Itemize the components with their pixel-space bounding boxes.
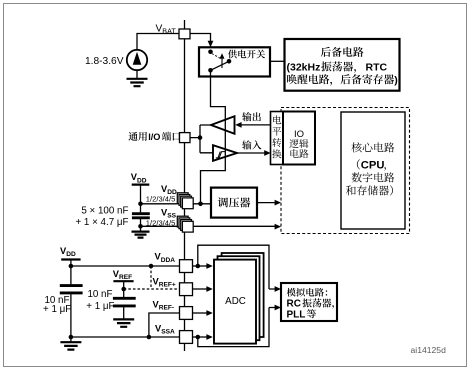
svg-text:1/2/3/4/5: 1/2/3/4/5 [146,195,176,204]
svg-text:PLL: PLL [287,309,306,320]
wire VSSA to analog blocks [193,305,282,347]
svg-text:+ 1 μF: + 1 μF [86,301,114,312]
label 后备电路 [321,47,364,57]
supply VDD (analog section) [61,260,80,267]
pin VDDA [180,260,193,273]
wire switch to backup circuit [270,60,284,62]
capacitor C1 5x100nF+1x4.7uF [132,204,150,227]
pin VREF- [180,307,193,320]
svg-text:VREF: VREF [113,269,132,281]
supply VDD (mid) [132,185,150,204]
ground [132,226,150,237]
regulator U5 [211,188,257,218]
label 通用I/O端口 [128,132,180,142]
wire VSS node to pin [141,225,178,227]
node VREF- junction [147,335,152,340]
svg-text:(32kHz: (32kHz [287,62,321,74]
node VDD-regulator junction [198,202,203,207]
capacitor C2 10nF+1uF [60,266,83,337]
node pad junction [198,135,203,140]
wire VDD node to pin [141,203,178,205]
supply wire switch to VDD node [201,70,226,204]
ground [60,337,81,350]
wire VDDA to analog blocks [193,245,282,292]
svg-text:I/O: I/O [148,132,160,142]
svg-text:ai14125d: ai14125d [411,345,447,355]
wire pad net [190,125,213,153]
wire VSS to core domain [193,224,281,230]
svg-text:VDDA: VDDA [155,252,176,264]
core domain dashed boundary [281,108,410,234]
backup circuit block U2 [285,39,400,91]
svg-text:VDD: VDD [131,172,147,184]
wire VBAT to switch [190,34,213,48]
pin VSSA [180,331,193,344]
node VDD [138,202,143,207]
battery source B1 1.8-3.6V [127,50,147,70]
supply VREF [113,281,133,289]
wire source to VBAT [137,34,179,50]
label 输出 [242,112,261,121]
svg-text:): ) [394,74,398,86]
label (32kHz oscillator, RTC [287,61,388,73]
IO logic block [283,112,315,165]
label IO 逻辑电路 [289,129,308,158]
pin VDD 1..5 (stack) [177,193,193,209]
svg-text:CPU: CPU [361,160,385,172]
label 调压器 [218,197,250,207]
ground [127,70,148,86]
label wakeup circuit, backup registers [287,74,398,86]
svg-text:VBAT: VBAT [156,24,177,36]
wire VSSA net [71,336,180,338]
value label C2 [43,295,71,315]
analog circuits block [281,283,337,321]
pin VSS 1..5 (stack) [177,216,193,232]
label 输入 [242,140,261,149]
label 供电开关 [228,50,265,59]
node VSS [138,224,143,229]
pin VREF+ [180,283,193,296]
svg-text:VSSA: VSSA [155,323,175,335]
svg-text:IO: IO [294,129,304,140]
node VSSA net [69,335,74,340]
svg-text:5 × 100 nF: 5 × 100 nF [81,206,128,217]
output buffer U3 [211,116,235,134]
wire VREF+ dashed [124,266,180,289]
wire VDDA net [71,265,180,267]
wire VDD pin to regulator [193,203,211,205]
input schmitt buffer U4 [213,145,237,161]
capacitor C3 10nF+1uF [113,289,136,319]
chip edge rail (pins line) [184,20,186,351]
wire regulator output [257,200,281,206]
core circuit block [341,112,405,229]
schmitt symbol [216,152,225,158]
svg-text:VDD: VDD [60,246,76,258]
svg-text:1/2/3/4/5: 1/2/3/4/5 [146,219,176,228]
node VDDA net [69,264,74,269]
svg-text:+ 1 μF: + 1 μF [43,304,71,315]
ground [113,319,134,326]
ADC block (stacked) [214,253,264,344]
node VREF+ tap [149,264,154,269]
svg-text:1.8-3.6V: 1.8-3.6V [85,56,124,67]
svg-text:VREF-: VREF- [153,299,175,311]
pin I/O port [180,133,191,143]
power switch SW1 [199,47,270,76]
wire output (from level shifter) [235,122,270,128]
wire VREF+ to ADC [193,286,213,292]
svg-text:+ 1 × 4.7 μF: + 1 × 4.7 μF [75,217,128,228]
label 核心电路 (CPU, digital, memory) [346,142,395,195]
value label C1 [75,206,128,229]
svg-text:RC: RC [287,299,301,310]
label 电平转换 [273,115,281,124]
node VREF [121,287,126,292]
wire input (to level shifter) [237,150,271,156]
svg-text:ADC: ADC [225,296,246,307]
wire VREF- to VSSA net [149,313,180,337]
label 模拟电路: RC osc, PLL [287,288,334,321]
svg-text:RTC: RTC [366,62,388,74]
svg-text:10 nF: 10 nF [87,289,112,300]
value label C3 [86,289,114,312]
svg-text:VREF+: VREF+ [153,276,176,288]
level shifter block [271,112,284,165]
pin VBAT [179,29,190,39]
wire VREF- to ADC [193,310,213,316]
